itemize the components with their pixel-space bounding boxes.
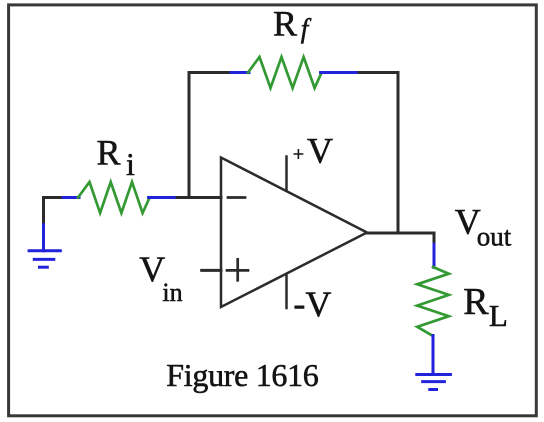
wire: blue segment right of Rf [321, 71, 360, 74]
svg-text:V: V [307, 131, 333, 171]
svg-text:Figure 1616: Figure 1616 [166, 357, 318, 393]
svg-text:R: R [463, 281, 489, 323]
power -V stub [285, 274, 288, 308]
wire: blue segment left of Rf [231, 71, 249, 74]
op-amp U1 [221, 158, 367, 308]
power +V stub [285, 157, 288, 191]
svg-text:R: R [97, 133, 121, 173]
wire: non-inverting input stub [202, 269, 221, 272]
wire: blue vertical RL to ground [432, 336, 435, 375]
op-amp plus marker [227, 269, 248, 272]
svg-text:in: in [162, 278, 182, 307]
wire: feedback left vertical (inverting node up to Rf) [189, 73, 232, 198]
svg-text:out: out [477, 221, 512, 251]
resistor RL [417, 267, 449, 336]
wire: blue output vertical to RL [433, 245, 436, 268]
svg-text:-: - [293, 283, 305, 323]
wire: left corner dark (ground up to Ri) [44, 198, 66, 222]
svg-text:R: R [273, 4, 297, 44]
svg-text:+: + [293, 143, 304, 165]
svg-text:L: L [489, 298, 508, 333]
svg-text:i: i [126, 146, 135, 182]
wire: blue segment right of Ri [149, 196, 178, 199]
ground (input, left) [29, 221, 60, 268]
wire: inverting input (to op-amp, through feedback junction) [177, 196, 221, 199]
op-amp minus marker [228, 196, 245, 199]
svg-text:V: V [305, 284, 331, 324]
ground (load, right) [417, 375, 451, 390]
wire: blue segment left of Ri [63, 196, 79, 199]
wire: feedback right horizontal + vertical down to output node [359, 73, 398, 234]
resistor Ri [78, 182, 150, 213]
wire: output horizontal [367, 233, 434, 246]
svg-text:f: f [301, 13, 312, 43]
resistor Rf [248, 57, 322, 88]
svg-text:V: V [139, 249, 165, 289]
